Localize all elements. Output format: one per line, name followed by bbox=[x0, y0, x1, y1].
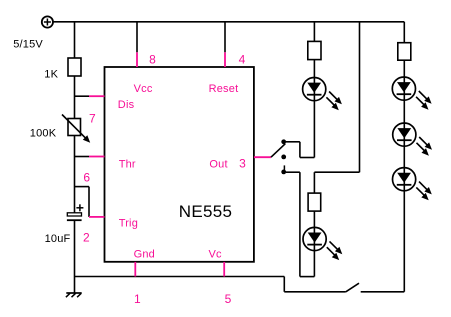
LED D1 branch A bbox=[303, 78, 342, 111]
ground symbol bbox=[66, 293, 82, 297]
capacitor C1 10uF bbox=[67, 213, 82, 220]
capacitor C1 polarity plus bbox=[76, 204, 83, 211]
wire C1 to ground bbox=[74, 221, 76, 293]
wire +V drop middle bbox=[359, 22, 361, 172]
svg-text:Reset: Reset bbox=[209, 83, 239, 95]
svg-text:4: 4 bbox=[239, 52, 246, 66]
svg-text:1: 1 bbox=[134, 292, 141, 306]
switch SW1 bottom contact bbox=[281, 170, 286, 175]
pin 3 stub bbox=[254, 156, 271, 158]
pin 1 stub bbox=[134, 262, 136, 277]
wire branch B to +V drop bbox=[314, 171, 359, 173]
svg-text:7: 7 bbox=[89, 112, 96, 126]
wire R1 to VR1 bbox=[74, 76, 76, 119]
wire rail to R4 bbox=[403, 22, 405, 43]
svg-text:100K: 100K bbox=[30, 128, 57, 140]
wire +V top rail bbox=[53, 21, 404, 23]
pin 6 stub bbox=[89, 156, 105, 158]
switch SW1 lever bbox=[271, 144, 285, 158]
wire branch A vertical bbox=[313, 22, 315, 158]
svg-text:2: 2 bbox=[83, 231, 90, 245]
svg-text:8: 8 bbox=[149, 52, 156, 66]
wire rail to pin 4 bbox=[224, 22, 226, 53]
wire node Dis junction bbox=[75, 95, 90, 97]
wire Trig branch horizontal bbox=[75, 186, 90, 188]
resistor R4 right chain bbox=[398, 43, 411, 61]
svg-text:Trig: Trig bbox=[119, 218, 138, 230]
potentiometer arrow bbox=[62, 115, 90, 143]
pin 2 stub bbox=[89, 216, 105, 218]
wire 0V rail drop bbox=[283, 277, 285, 292]
wire VR1 to C1 bbox=[74, 136, 76, 213]
switch SW1 top contact bbox=[281, 139, 286, 144]
svg-text:1K: 1K bbox=[44, 69, 58, 81]
potentiometer VR1 100K bbox=[68, 119, 81, 136]
resistor R2 branch A bbox=[308, 41, 321, 59]
wire node Thr junction bbox=[75, 156, 90, 158]
battery positive terminal bbox=[42, 16, 53, 27]
svg-text:5/15V: 5/15V bbox=[13, 39, 43, 51]
wire to branch A bottom bbox=[300, 157, 315, 159]
wire rail to pin 8 bbox=[136, 22, 138, 53]
wire right LED chain vertical bbox=[403, 60, 405, 292]
wire branch B bottom link bbox=[300, 276, 315, 278]
svg-text:6: 6 bbox=[83, 171, 90, 185]
pin 5 stub bbox=[223, 262, 225, 277]
wire branch B vertical bbox=[313, 172, 315, 276]
wire branch B return bbox=[299, 172, 301, 276]
LED D5 right chain bbox=[393, 168, 432, 201]
svg-text:Vc: Vc bbox=[209, 248, 223, 260]
wire rail to R1 bbox=[74, 22, 76, 59]
svg-text:5: 5 bbox=[225, 292, 232, 306]
svg-text:Gnd: Gnd bbox=[134, 248, 155, 260]
LED D3 right chain bbox=[392, 77, 431, 110]
LED D4 right chain bbox=[393, 123, 432, 156]
resistor R1 1K bbox=[68, 58, 81, 76]
wire 0V rail left bbox=[75, 276, 285, 278]
svg-text:Dis: Dis bbox=[118, 99, 135, 111]
switch SW1 bottom contact lead bbox=[283, 165, 285, 171]
wire Trig branch vertical bbox=[88, 187, 90, 217]
op-amp U1 NE555 body bbox=[105, 67, 254, 262]
svg-text:10uF: 10uF bbox=[45, 233, 71, 245]
pin 4 stub bbox=[224, 52, 226, 67]
svg-text:Out: Out bbox=[209, 159, 227, 171]
switch SW1 middle contact bbox=[281, 155, 286, 160]
wire 0V rail to switch SW2 bbox=[284, 291, 346, 293]
svg-text:3: 3 bbox=[239, 157, 246, 171]
svg-text:NE555: NE555 bbox=[179, 202, 232, 221]
pin 7 stub bbox=[89, 95, 105, 97]
wire SW1 bottom contact out bbox=[286, 171, 300, 173]
wire jog down bbox=[299, 142, 301, 158]
switch SW2 on-off lever bbox=[346, 283, 359, 292]
svg-text:Thr: Thr bbox=[119, 159, 136, 171]
wire SW1 top contact out bbox=[286, 141, 300, 143]
wire SW2 to LED chain bbox=[361, 291, 405, 293]
LED D2 branch B bbox=[303, 227, 342, 260]
svg-text:Vcc: Vcc bbox=[134, 83, 153, 95]
resistor R3 branch B bbox=[308, 193, 321, 211]
pin 8 stub bbox=[136, 52, 138, 67]
